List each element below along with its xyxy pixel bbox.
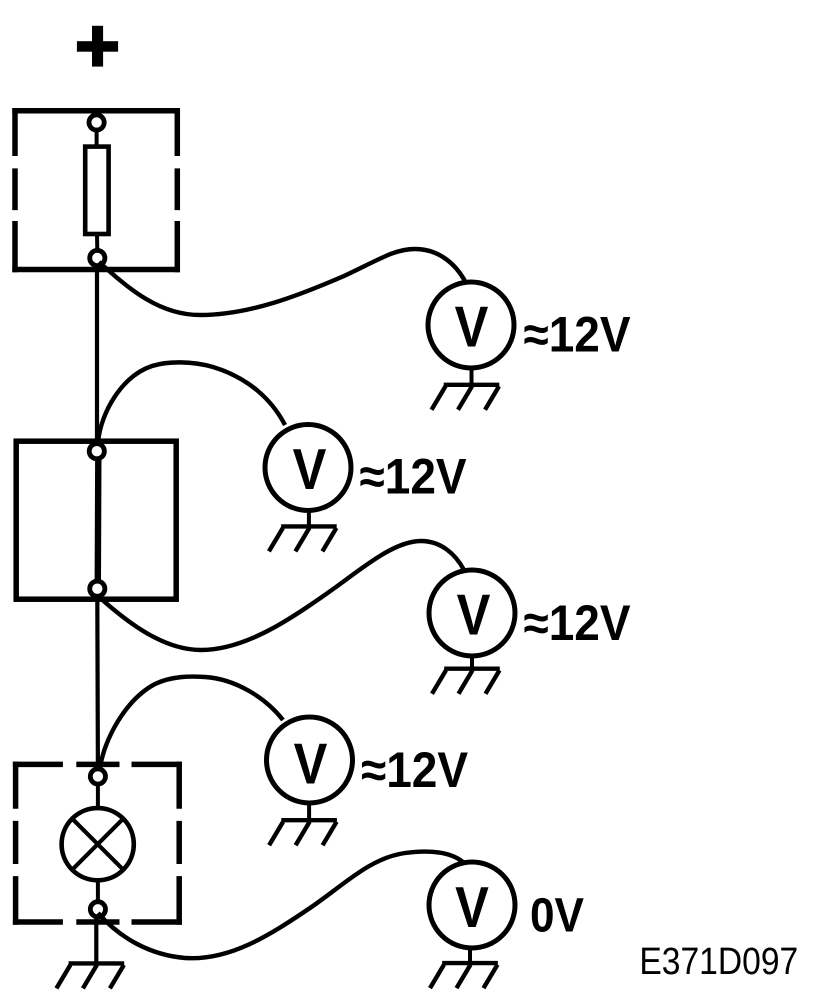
svg-text:≈12V: ≈12V xyxy=(360,450,467,505)
voltmeter V2 xyxy=(265,425,351,511)
voltmeter V3 xyxy=(429,570,515,656)
wire: switch box to lamp box xyxy=(95,596,100,769)
node: lamp bottom terminal xyxy=(90,902,105,917)
wire lamp-top xyxy=(96,784,100,810)
lamp E1 (circle with X) xyxy=(62,808,134,880)
node: fuse top terminal xyxy=(89,115,104,130)
svg-text:V: V xyxy=(293,438,327,502)
svg-text:≈12V: ≈12V xyxy=(523,308,630,363)
wire: probe lead to voltmeter V1 xyxy=(99,249,466,315)
battery + terminal xyxy=(77,26,118,67)
svg-text:V: V xyxy=(455,296,489,360)
ground: V3 ground xyxy=(432,655,500,694)
wire: lamp to chassis ground xyxy=(94,917,98,962)
voltmeter V5 xyxy=(429,862,515,948)
switch box xyxy=(16,441,176,599)
lamp box (dashed component box) xyxy=(13,762,182,925)
wire: probe lead to voltmeter V4 xyxy=(100,677,283,768)
voltmeter V4 xyxy=(267,717,353,803)
ground: main circuit ground xyxy=(56,963,124,988)
fuse box (dashed component box) xyxy=(12,108,180,272)
switch element (closed contact bar) xyxy=(95,459,102,581)
svg-text:≈12V: ≈12V xyxy=(361,743,468,798)
ground: V1 ground xyxy=(432,367,500,410)
node: switch top terminal xyxy=(89,444,104,459)
svg-text:V: V xyxy=(457,584,491,648)
wire: probe lead to voltmeter V2 xyxy=(98,362,285,442)
ground: V4 ground xyxy=(269,802,337,846)
ground: V5 ground xyxy=(430,947,498,989)
wire: probe lead to voltmeter V5 xyxy=(98,852,464,959)
node: switch bottom terminal xyxy=(90,581,105,596)
wire: fuse box to switch box xyxy=(95,266,99,444)
fuse F1 xyxy=(85,147,108,234)
voltmeter V1 xyxy=(428,282,514,368)
wire lamp-bottom xyxy=(96,878,100,902)
svg-text:V: V xyxy=(294,732,328,796)
svg-text:≈12V: ≈12V xyxy=(523,596,630,651)
wire fuse-bottom xyxy=(95,234,99,251)
svg-text:V: V xyxy=(455,876,489,940)
node: fuse bottom terminal xyxy=(90,250,105,265)
svg-text:0V: 0V xyxy=(530,888,584,942)
node: lamp top terminal xyxy=(90,769,105,784)
wire: probe lead to voltmeter V3 xyxy=(98,541,464,650)
ground: V2 ground xyxy=(269,509,337,551)
wire fuse-top xyxy=(95,130,99,147)
svg-text:E371D097: E371D097 xyxy=(639,940,798,982)
